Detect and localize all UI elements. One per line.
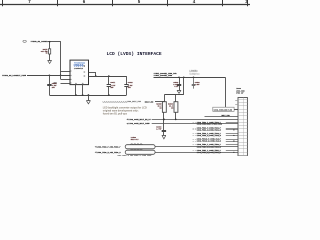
wire net to corner <box>48 41 61 43</box>
svg-text:6.3V: 6.3V <box>174 86 178 88</box>
wire corner vertical <box>60 41 62 79</box>
junction dot rail1 <box>75 94 77 96</box>
ground below R9571 <box>48 61 52 64</box>
junction dot row LVDS_TXA1_N_CONN_TXA1_N <box>233 129 234 130</box>
wire pullup tie bar <box>164 94 183 96</box>
wire resistor bottom lead <box>49 54 51 60</box>
net flag row LVDS_TXA1_N_CONN_TXA1_N <box>193 129 195 131</box>
inductor L9560 winding 1 <box>125 145 155 149</box>
svg-text:LVDS_CONN_BKLT_EN: LVDS_CONN_BKLT_EN <box>214 109 232 111</box>
net flag row LVDS_TXCLK_N_CONN_CLK_N <box>193 141 195 143</box>
wire PP5V1 horizontal <box>154 77 226 79</box>
junction dot B <box>60 74 62 76</box>
wire IC output rail <box>89 76 127 78</box>
svg-text:IPEX 30P: IPEX 30P <box>236 93 243 95</box>
capacitor C9564 <box>49 75 51 84</box>
svg-text:LVDS_TXB0_N_CONN_TXB0_N: LVDS_TXB0_N_CONN_TXB0_N <box>197 146 221 148</box>
ground C9568 <box>177 90 181 93</box>
svg-text:LVDS_TXA2_N_CONN_TXA2_N: LVDS_TXA2_N_CONN_TXA2_N <box>197 134 221 137</box>
svg-text:25V: 25V <box>128 87 131 89</box>
inductor L9560 winding 2 <box>125 150 155 154</box>
svg-text:LVDS_TXB0_P_CHK_TXB0_P: LVDS_TXB0_P_CHK_TXB0_P <box>97 146 121 148</box>
wire pair row LVDS_TXB1_P_CONN_TXB1_P <box>226 150 238 152</box>
pin stub NC2 <box>235 104 238 106</box>
svg-text:PPBUS_SW_LCDBKL: PPBUS_SW_LCDBKL <box>31 40 49 43</box>
wire pwm stub <box>61 83 71 85</box>
capacitor C9611 <box>108 76 110 85</box>
border tick 5 <box>222 0 224 6</box>
connector inner divider <box>243 98 245 157</box>
junction dot row LVDS_TXCLK_N_CONN_CLK_N <box>233 140 234 141</box>
border top line <box>0 4 250 6</box>
wire pair row LVDS_TXB0_P_CONN_TXB0_P <box>226 144 238 146</box>
svg-text:C9612: C9612 <box>128 82 133 84</box>
wire pair row LVDS_TXA2_N_CONN_TXA2_N <box>226 135 238 137</box>
wire squiggle net to R9565 <box>155 101 164 103</box>
svg-text:LVDS_TXA0_P_CONN_TXA0_P: LVDS_TXA0_P_CONN_TXA0_P <box>197 121 221 124</box>
wire R9565 bottom lead <box>163 112 165 119</box>
svg-text:LP8550TLX: LP8550TLX <box>74 68 84 70</box>
wire choke out 2 <box>155 152 238 154</box>
svg-text:2.2uF: 2.2uF <box>173 84 178 86</box>
capacitor C9612 <box>126 76 128 85</box>
wire row B <box>152 123 238 125</box>
resistor R9566 <box>174 102 178 113</box>
junction dot rowA R9565 <box>163 119 165 121</box>
net flag row LVDS_TXB1_P_CONN_TXB1_P <box>193 150 195 152</box>
wire IC gnd pin1 <box>75 85 77 95</box>
svg-text:1%: 1% <box>46 53 48 55</box>
svg-text:PPBUS_SW_LCDBKLT_PWM5: PPBUS_SW_LCDBKLT_PWM5 <box>2 74 27 77</box>
wire PP5V1 corner drop <box>225 77 227 107</box>
net flag row A <box>126 119 128 121</box>
squiggle annotation on backlight net <box>103 101 128 104</box>
wire pin upper drop <box>95 72 97 76</box>
junction dot C9564 tap <box>49 74 51 76</box>
junction dot C9569 <box>193 76 195 78</box>
op-amp U9560 body <box>70 60 89 85</box>
wire R9565 top lead <box>164 95 166 102</box>
border tick 6 <box>247 0 249 6</box>
wire pair row LVDS_TXA0_P_CONN_TXA0_P <box>226 122 238 124</box>
net flag row LVDS_TXA1_P_CONN_TXA1_P <box>193 128 195 130</box>
net flag choke in 2 <box>95 151 97 153</box>
border tick 3 <box>112 0 114 6</box>
wire resistor top lead <box>49 42 51 49</box>
junction dot rail2 <box>82 94 84 96</box>
svg-text:LVDS_TXA1_N_CONN_TXA1_N: LVDS_TXA1_N_CONN_TXA1_N <box>197 128 221 131</box>
ground C9560 <box>162 135 166 139</box>
svg-text:2.2uF: 2.2uF <box>195 84 200 86</box>
svg-text:C9568: C9568 <box>173 82 178 84</box>
junction dot C9560 tap <box>163 119 165 121</box>
wire stub pin VIN2 <box>61 79 70 81</box>
svg-text:16: 16 <box>84 71 86 73</box>
wire IC gnd pin2 <box>82 85 84 95</box>
wire IC right pin upper <box>89 72 96 74</box>
svg-text:LVDS_BKLT_PWM: LVDS_BKLT_PWM <box>127 101 141 103</box>
resistor R9571 <box>49 49 51 54</box>
svg-text:BKLT-FLT: BKLT-FLT <box>131 139 139 141</box>
svg-text:LCD (LVDS) INTERFACE: LCD (LVDS) INTERFACE <box>107 51 162 57</box>
svg-text:LVDS_TXCLK_N_CONN_CLK_N: LVDS_TXCLK_N_CONN_CLK_N <box>197 141 221 143</box>
wire pair row LVDS_TXA1_N_CONN_TXA1_N <box>226 129 238 131</box>
svg-text:4.7uF: 4.7uF <box>156 127 161 130</box>
junction dot C9611 top <box>108 75 110 77</box>
capacitor C9560 <box>163 119 165 130</box>
ground main <box>87 101 91 104</box>
junction dot rowA R9566 <box>175 119 177 121</box>
wire pullup feed drop <box>183 77 185 94</box>
svg-text:LVDS_CONN_BKLT_PWM5: LVDS_CONN_BKLT_PWM5 <box>129 122 151 125</box>
wire R9566 top lead <box>175 95 177 102</box>
wire gnd tap <box>88 95 90 101</box>
svg-text:J9000: J9000 <box>236 88 241 90</box>
svg-text:C9611: C9611 <box>110 82 115 84</box>
junction dot pullup feed <box>183 76 185 78</box>
svg-text:L9560: L9560 <box>131 137 136 139</box>
wire R9566 bottom lead <box>175 112 177 119</box>
wire stub pin EN <box>61 71 70 73</box>
wire row A <box>152 119 238 121</box>
svg-text:25V: 25V <box>52 87 55 89</box>
net flag row LVDS_TXA2_P_CONN_TXA2_P <box>193 133 195 135</box>
junction dot A <box>49 41 51 43</box>
border tick 1 <box>2 0 4 6</box>
connector J9000 body <box>238 98 247 157</box>
border tick 2 <box>57 0 59 6</box>
wire pair row LVDS_TXCLK_N_CONN_CLK_N <box>226 141 238 143</box>
svg-text:LP8550: LP8550 <box>190 71 199 73</box>
svg-text:LVDS_TXB1_N_CONN_TXB1_N: LVDS_TXB1_N_CONN_TXB1_N <box>197 152 221 154</box>
border tick 4 <box>167 0 169 6</box>
svg-text:C9569: C9569 <box>195 82 200 84</box>
wire pair row LVDS_TXA2_P_CONN_TXA2_P <box>226 133 238 135</box>
wire ground rail <box>49 95 126 97</box>
junction dot C9568 <box>178 76 180 78</box>
wire net2 to IC <box>27 75 70 77</box>
svg-text:25V: 25V <box>111 87 114 89</box>
svg-text:LVDS-CONN: LVDS-CONN <box>236 90 244 92</box>
junction dot choke row 2 <box>233 152 234 153</box>
wire pair row LVDS_TXCLK_P_CONN_CLK_P <box>226 139 238 141</box>
svg-text:PP5V1_S0CONN_LVDS: PP5V1_S0CONN_LVDS <box>154 75 173 77</box>
wire pair row LVDS_TXA1_P_CONN_TXA1_P <box>226 128 238 130</box>
junction dot D <box>95 75 97 77</box>
capacitor C9568 <box>179 77 181 84</box>
boxed net label LVDS_CONN_BKLT_EN <box>213 107 234 111</box>
net flag row B <box>126 123 128 125</box>
net flag row LVDS_TXA0_P_CONN_TXA0_P <box>193 122 195 124</box>
svg-text:LVDS_TXB1_P_CHK_TXB1_P_CONN_TX: LVDS_TXB1_P_CHK_TXB1_P_CONN_TXB1 <box>117 155 152 156</box>
junction dot row LVDS_TXA2_N_CONN_TXA2_N <box>233 135 234 136</box>
net flag row LVDS_TXCLK_P_CONN_CLK_P <box>193 139 195 141</box>
svg-text:fused two BL pull-ups: fused two BL pull-ups <box>103 112 128 115</box>
svg-text:original vane development only: original vane development only; <box>103 110 139 113</box>
net flag choke in 1 <box>95 146 97 148</box>
net flag row LVDS_TXB0_P_CONN_TXB0_P <box>193 144 195 146</box>
svg-text:LED backlight converter output: LED backlight converter output for LCD <box>103 107 147 110</box>
wire boxed label to connector <box>234 109 238 111</box>
junction dot rail4 <box>108 94 110 96</box>
svg-text:LVDS_CONN_BKLT_EN_L5: LVDS_CONN_BKLT_EN_L5 <box>129 118 152 121</box>
capacitor C9569 <box>193 77 195 84</box>
junction dot rail3 <box>88 94 90 96</box>
connector pin cell dividers <box>238 99 247 101</box>
net flag row LVDS_TXA2_N_CONN_TXA2_N <box>193 135 195 137</box>
pin stub NC1 <box>235 100 238 102</box>
svg-text:15: 15 <box>84 75 86 77</box>
svg-text:BKLT_EN: BKLT_EN <box>145 100 154 103</box>
wire choke out 1 <box>155 146 238 148</box>
svg-text:LVDS_TXB0_N_CHK_TXB0_N: LVDS_TXB0_N_CHK_TXB0_N <box>97 152 121 154</box>
svg-text:R9571: R9571 <box>43 49 48 51</box>
wire row 116 <box>205 116 239 118</box>
net flag PPBUS_SW_BKLT <box>23 40 26 42</box>
resistor R9565 <box>162 102 166 113</box>
